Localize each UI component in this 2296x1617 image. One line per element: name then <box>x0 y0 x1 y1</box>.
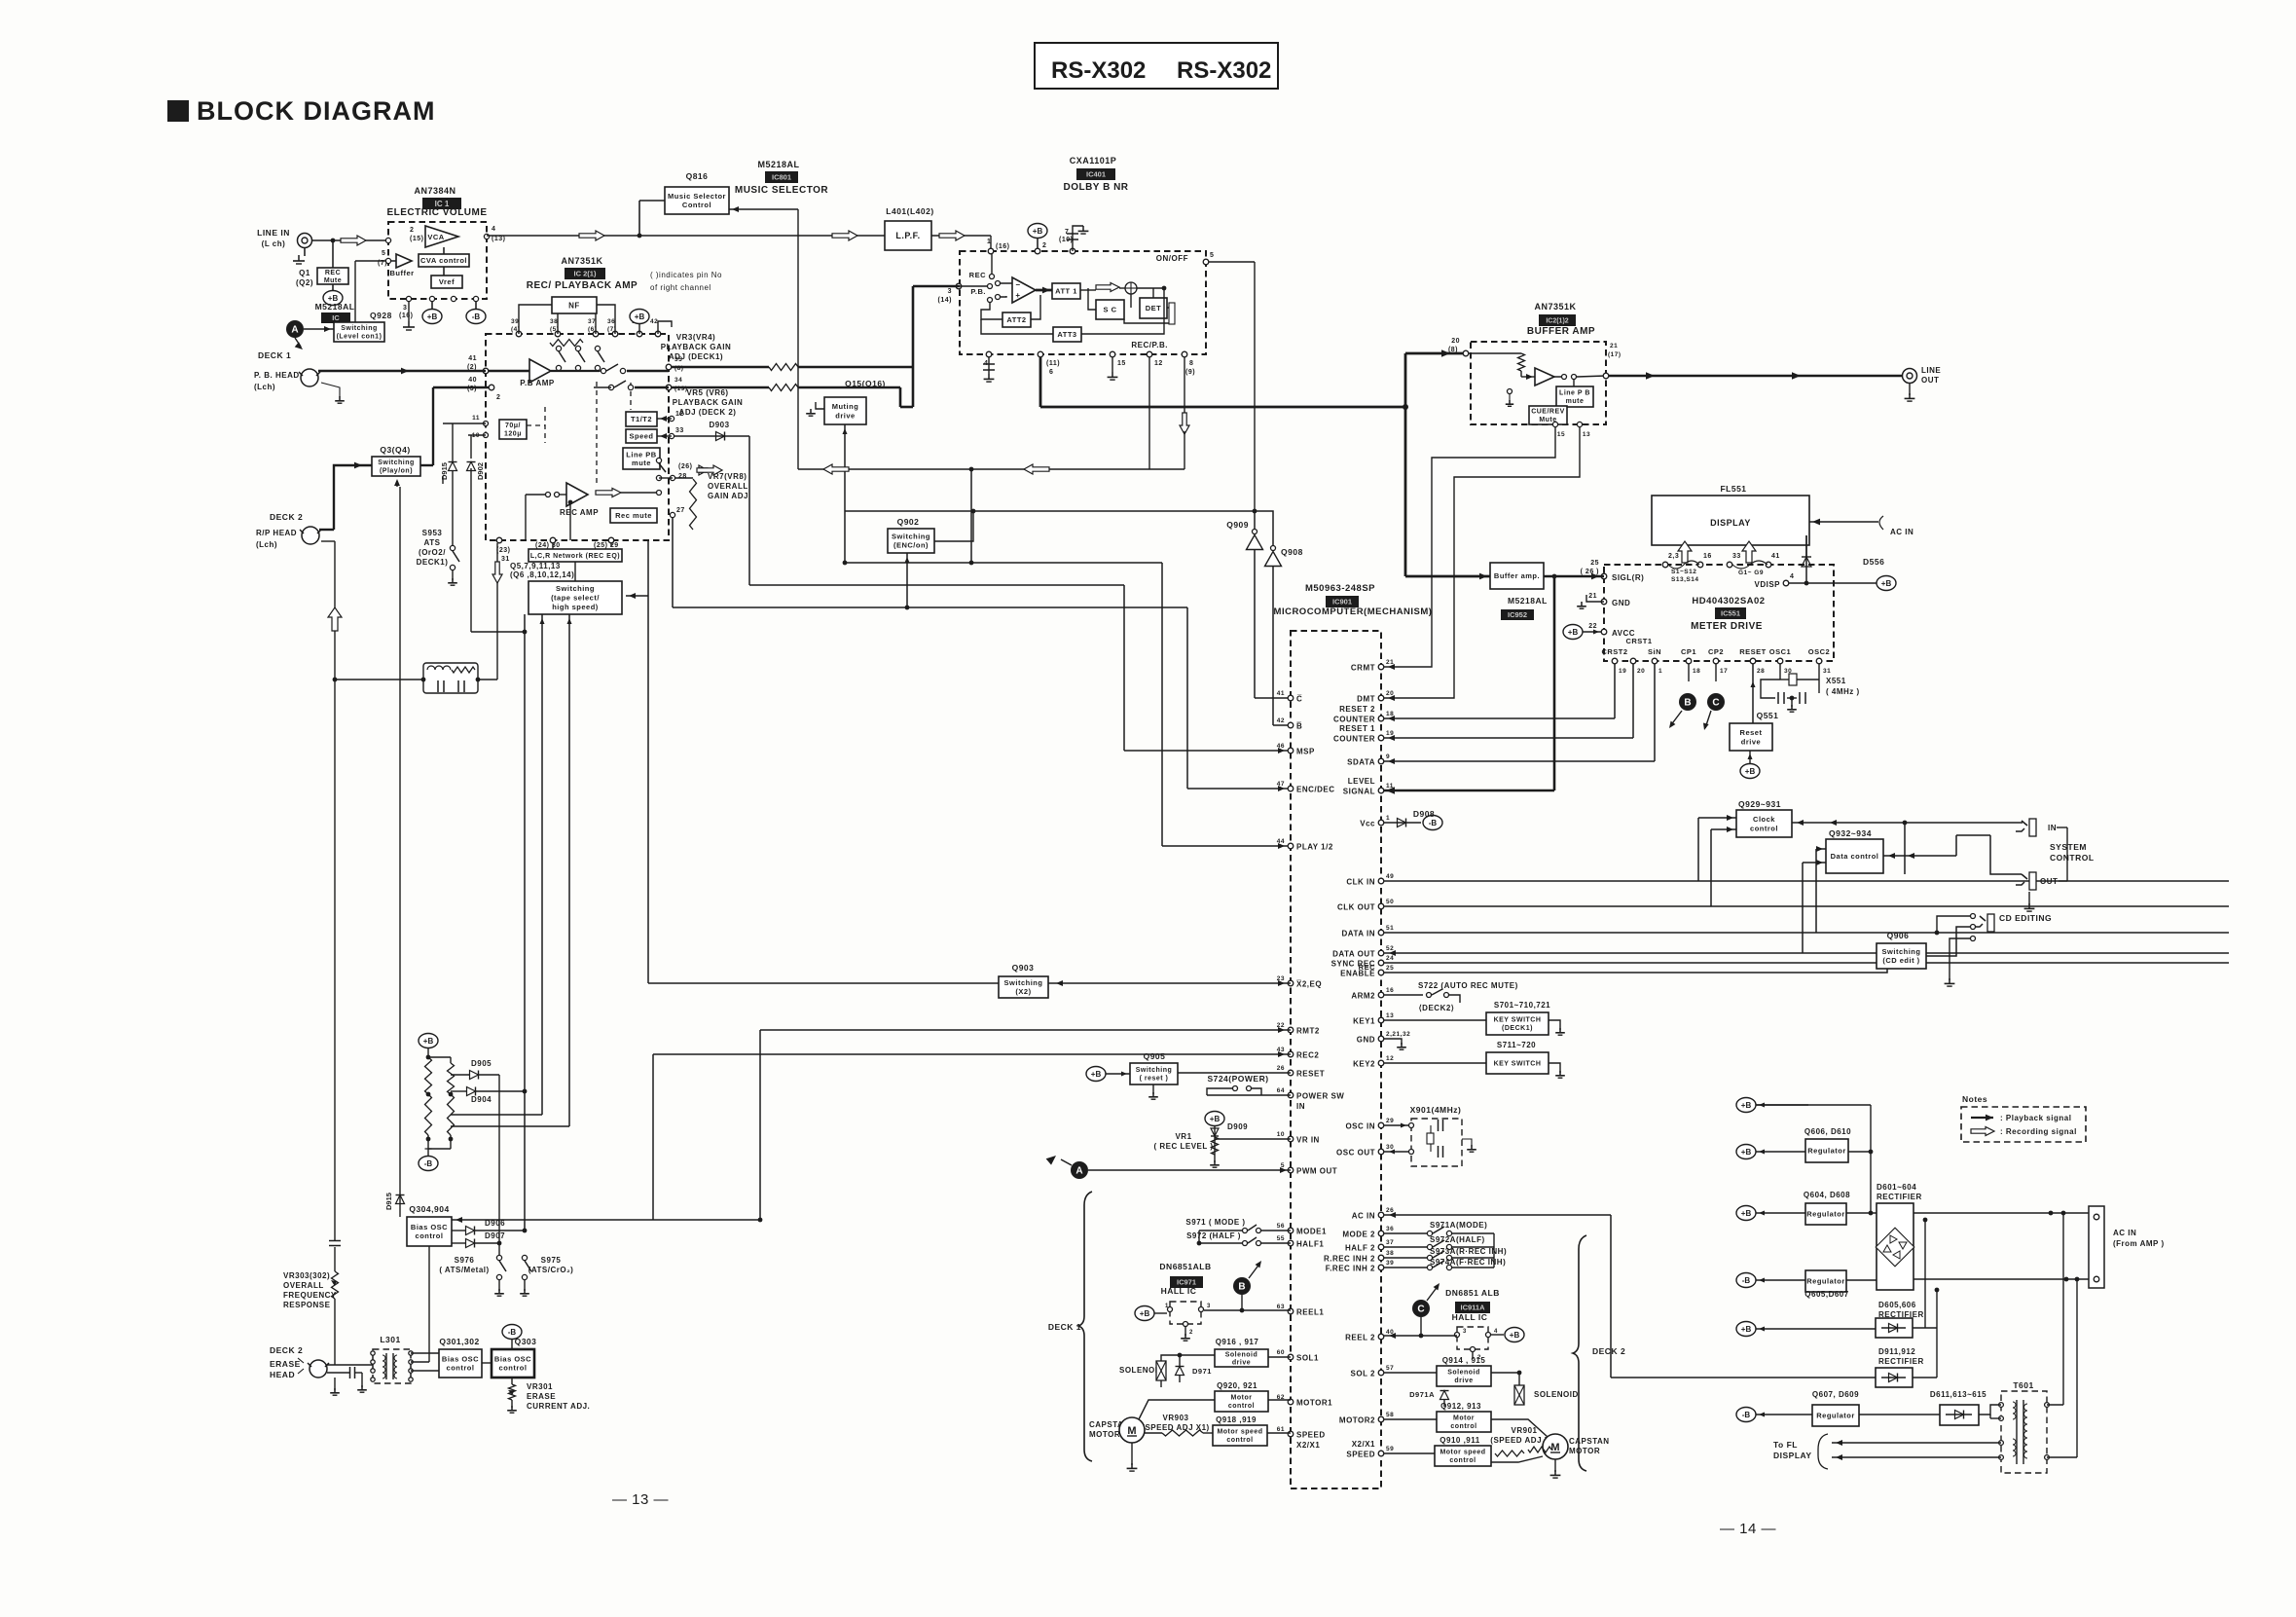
svg-text:1: 1 <box>1386 815 1390 822</box>
svg-text:(Q6 ,8,10,12,14): (Q6 ,8,10,12,14) <box>510 570 574 579</box>
svg-text:(Level con1): (Level con1) <box>337 334 383 341</box>
svg-text:DN6851ALB: DN6851ALB <box>1159 1262 1211 1271</box>
svg-text:Mute: Mute <box>324 277 342 284</box>
svg-text:D915: D915 <box>384 1193 393 1210</box>
svg-text:36: 36 <box>1386 1226 1394 1232</box>
svg-text:M5218AL: M5218AL <box>1508 596 1548 606</box>
svg-text:2: 2 <box>1189 1330 1193 1336</box>
svg-text:S972A(HALF): S972A(HALF) <box>1430 1235 1485 1244</box>
svg-text:drive: drive <box>835 411 855 420</box>
svg-text:ERASE: ERASE <box>527 1392 556 1401</box>
svg-text:Switching: Switching <box>556 584 595 593</box>
svg-text:MOTOR: MOTOR <box>1089 1430 1120 1439</box>
svg-text:ATT2: ATT2 <box>1006 315 1026 324</box>
svg-text:20: 20 <box>1451 338 1460 345</box>
svg-text:( 26 ): ( 26 ) <box>1581 569 1599 575</box>
svg-text:15: 15 <box>1117 360 1126 367</box>
svg-text:47: 47 <box>1277 781 1285 788</box>
svg-text:— 13 —: — 13 — <box>612 1491 669 1508</box>
svg-text:2,3: 2,3 <box>1668 553 1679 560</box>
svg-text:DECK 2: DECK 2 <box>1592 1346 1625 1356</box>
svg-text:M5218AL: M5218AL <box>757 160 799 169</box>
svg-text:4: 4 <box>1790 573 1794 580</box>
svg-text:control: control <box>1750 824 1778 832</box>
svg-text:D903: D903 <box>709 421 729 429</box>
svg-text:(Play/on): (Play/on) <box>380 468 413 475</box>
svg-text:Q908: Q908 <box>1281 547 1303 557</box>
svg-text:L,C,R Network (REC EQ): L,C,R Network (REC EQ) <box>530 553 620 560</box>
svg-text:DECK 2: DECK 2 <box>270 1345 303 1355</box>
svg-text:Vref: Vref <box>439 277 455 286</box>
svg-text:59: 59 <box>1386 1446 1394 1452</box>
svg-text:METER DRIVE: METER DRIVE <box>1691 621 1763 632</box>
svg-text:57: 57 <box>1386 1365 1394 1372</box>
svg-text:S971 ( MODE ): S971 ( MODE ) <box>1185 1218 1245 1227</box>
svg-text:SOLENOID: SOLENOID <box>1534 1390 1579 1399</box>
svg-text:: Playback signal: : Playback signal <box>2000 1114 2071 1122</box>
svg-text:IC801: IC801 <box>772 173 791 182</box>
svg-text:31: 31 <box>1823 668 1831 675</box>
svg-text:ARM2: ARM2 <box>1351 992 1375 1001</box>
svg-text:VR1: VR1 <box>1175 1132 1191 1141</box>
svg-text:39: 39 <box>511 318 519 325</box>
svg-text:38: 38 <box>1386 1250 1394 1257</box>
svg-text:40: 40 <box>468 377 477 384</box>
svg-text:KEY2: KEY2 <box>1353 1060 1375 1069</box>
svg-text:21: 21 <box>1588 593 1597 600</box>
svg-text:REC: REC <box>325 270 341 276</box>
svg-text:VR903: VR903 <box>1163 1414 1189 1422</box>
svg-text:+B: +B <box>1033 227 1043 236</box>
svg-text:55: 55 <box>1277 1235 1285 1242</box>
svg-text:MUSIC SELECTOR: MUSIC SELECTOR <box>735 185 829 196</box>
svg-text:S701~710,721: S701~710,721 <box>1494 1001 1550 1010</box>
svg-text:IN: IN <box>2048 824 2057 832</box>
svg-text:control: control <box>416 1231 444 1240</box>
svg-text:L.P.F.: L.P.F. <box>895 231 920 240</box>
svg-text:T601: T601 <box>2013 1380 2033 1390</box>
svg-text:control: control <box>1450 1423 1476 1430</box>
svg-text:24: 24 <box>1386 955 1394 962</box>
svg-text:51: 51 <box>1386 925 1394 932</box>
svg-text:(9): (9) <box>1185 369 1195 376</box>
svg-text:42: 42 <box>650 318 658 325</box>
svg-text:CLK OUT: CLK OUT <box>1337 903 1375 912</box>
svg-text:56: 56 <box>1277 1223 1285 1230</box>
svg-text:+B: +B <box>1741 1325 1752 1334</box>
svg-text:35: 35 <box>674 356 682 363</box>
svg-text:control: control <box>1226 1437 1253 1444</box>
svg-text:Q606, D610: Q606, D610 <box>1804 1127 1851 1136</box>
svg-text:Bias OSC: Bias OSC <box>411 1223 448 1231</box>
svg-text:3: 3 <box>948 288 952 295</box>
svg-text:DECK 1: DECK 1 <box>258 350 291 360</box>
svg-text:HALL IC: HALL IC <box>1452 1312 1488 1322</box>
svg-text:41: 41 <box>1771 553 1780 560</box>
svg-text:T1/T2: T1/T2 <box>631 415 652 423</box>
svg-text:HALL IC: HALL IC <box>1161 1286 1197 1296</box>
svg-text:( reset ): ( reset ) <box>1140 1076 1169 1083</box>
svg-text:Q912, 913: Q912, 913 <box>1440 1402 1481 1411</box>
svg-text:2: 2 <box>496 394 500 401</box>
svg-text:D556: D556 <box>1863 557 1884 567</box>
svg-text:control: control <box>1449 1457 1476 1464</box>
svg-text:drive: drive <box>1232 1359 1251 1366</box>
svg-text:27: 27 <box>676 507 685 514</box>
svg-text:39: 39 <box>1386 1260 1394 1267</box>
svg-text:AC IN: AC IN <box>2113 1229 2136 1237</box>
svg-text:Bias OSC: Bias OSC <box>494 1355 531 1364</box>
svg-text:10: 10 <box>1277 1131 1285 1138</box>
svg-text:B̅: B̅ <box>1296 722 1303 731</box>
svg-text:3: 3 <box>403 305 407 312</box>
svg-text:PLAYBACK GAIN: PLAYBACK GAIN <box>661 343 731 351</box>
svg-text:120μ: 120μ <box>504 431 522 438</box>
svg-text:mute: mute <box>1566 398 1585 405</box>
svg-text:CONTROL: CONTROL <box>2050 853 2095 863</box>
svg-text:IC: IC <box>332 313 340 322</box>
svg-text:( REC LEVEL ): ( REC LEVEL ) <box>1153 1142 1213 1151</box>
svg-text:CXA1101P: CXA1101P <box>1070 156 1117 165</box>
svg-text:CP2: CP2 <box>1708 647 1724 656</box>
svg-text:11: 11 <box>472 415 480 422</box>
svg-text:RESPONSE: RESPONSE <box>283 1301 331 1309</box>
svg-text:Q816: Q816 <box>686 171 709 181</box>
svg-text:16: 16 <box>1386 987 1394 994</box>
svg-text:MSP: MSP <box>1296 748 1315 756</box>
svg-text:RMT2: RMT2 <box>1296 1027 1320 1036</box>
svg-text:D905: D905 <box>471 1059 492 1068</box>
svg-text:-B: -B <box>472 312 481 321</box>
svg-text:2: 2 <box>410 227 414 234</box>
svg-text:(Lch): (Lch) <box>256 540 277 549</box>
svg-text:(ATS/CrO₂): (ATS/CrO₂) <box>528 1266 574 1274</box>
svg-text:OVERALL: OVERALL <box>283 1281 324 1290</box>
svg-text:drive: drive <box>1454 1378 1473 1384</box>
svg-text:-B: -B <box>1429 819 1438 827</box>
svg-text:X̅2,EQ: X̅2,EQ <box>1296 980 1322 989</box>
svg-text:RECTIFIER: RECTIFIER <box>1877 1193 1922 1201</box>
svg-text:CRST1: CRST1 <box>1625 637 1652 645</box>
svg-text:+B: +B <box>1210 1115 1221 1123</box>
svg-text:DECK 2: DECK 2 <box>270 512 303 522</box>
svg-text:-B: -B <box>1742 1276 1751 1285</box>
svg-text:Q15(Q16): Q15(Q16) <box>845 379 886 388</box>
svg-text:AN7351K: AN7351K <box>561 256 602 266</box>
svg-text:X901(4MHz): X901(4MHz) <box>1410 1105 1462 1115</box>
svg-text:CD EDITING: CD EDITING <box>1999 913 2052 923</box>
svg-text:20: 20 <box>1637 668 1645 675</box>
svg-text:(11): (11) <box>1046 360 1060 367</box>
svg-text:HALF1: HALF1 <box>1296 1240 1324 1249</box>
svg-text:+B: +B <box>423 1037 434 1046</box>
svg-text:VR IN: VR IN <box>1296 1136 1320 1145</box>
svg-text:G1~ G9: G1~ G9 <box>1738 570 1764 576</box>
svg-text:8: 8 <box>1189 360 1193 367</box>
svg-text:16: 16 <box>1703 553 1712 560</box>
svg-text:AN7351K: AN7351K <box>1534 302 1576 312</box>
svg-text:36: 36 <box>607 318 615 325</box>
svg-text:REEL1: REEL1 <box>1296 1308 1324 1317</box>
svg-text:(7): (7) <box>378 260 387 267</box>
svg-text:IC901: IC901 <box>1332 598 1352 606</box>
svg-text:S711~720: S711~720 <box>1497 1041 1536 1049</box>
svg-text:19: 19 <box>1619 668 1626 675</box>
svg-text:VR5 (VR6): VR5 (VR6) <box>686 388 728 397</box>
svg-text:DECK1): DECK1) <box>417 558 449 567</box>
svg-text:AC IN: AC IN <box>1352 1212 1375 1221</box>
svg-text:— 14 —: — 14 — <box>1720 1521 1776 1537</box>
svg-text:+B: +B <box>1140 1309 1150 1318</box>
svg-text:OUT: OUT <box>1921 376 1939 385</box>
svg-text:DN6851 ALB: DN6851 ALB <box>1445 1288 1500 1298</box>
svg-text:A: A <box>291 325 298 336</box>
svg-text:Q1: Q1 <box>299 269 310 277</box>
svg-text:Switching: Switching <box>341 325 378 332</box>
svg-text:DOLBY B NR: DOLBY B NR <box>1063 182 1128 193</box>
svg-text:( ATS/Metal): ( ATS/Metal) <box>439 1266 489 1274</box>
svg-text:ATS: ATS <box>424 538 441 547</box>
svg-text:19: 19 <box>1386 730 1394 737</box>
svg-text:D904: D904 <box>471 1095 492 1104</box>
svg-text:Q914 , 915: Q914 , 915 <box>1442 1356 1486 1365</box>
svg-text:F.REC INH 2: F.REC INH 2 <box>1326 1265 1375 1273</box>
svg-text:OSC2: OSC2 <box>1808 647 1830 656</box>
svg-text:S1~S12: S1~S12 <box>1671 569 1696 575</box>
svg-text:D971A: D971A <box>1409 1390 1435 1399</box>
svg-text:P.B AMP: P.B AMP <box>520 379 555 387</box>
svg-text:50: 50 <box>1386 899 1394 905</box>
svg-text:mute: mute <box>632 459 651 467</box>
svg-text:4: 4 <box>1494 1329 1498 1335</box>
svg-text:L301: L301 <box>380 1335 400 1344</box>
svg-text:63: 63 <box>1277 1304 1285 1310</box>
svg-text:21: 21 <box>1610 343 1618 349</box>
svg-text:-B: -B <box>1742 1411 1751 1419</box>
svg-text:RESET: RESET <box>1739 647 1767 656</box>
svg-text:CLK IN: CLK IN <box>1346 878 1375 887</box>
svg-text:VCA: VCA <box>427 233 444 241</box>
svg-text:Q551: Q551 <box>1757 711 1779 720</box>
svg-text:3: 3 <box>1207 1304 1211 1309</box>
svg-text:(DECK1): (DECK1) <box>1502 1025 1533 1032</box>
svg-text:26: 26 <box>1386 1207 1394 1214</box>
svg-text:Q902: Q902 <box>897 517 920 527</box>
svg-text:(tape select/: (tape select/ <box>551 594 600 603</box>
svg-text:Speed: Speed <box>629 432 653 441</box>
svg-text:37: 37 <box>588 318 596 325</box>
svg-text:D902: D902 <box>476 462 485 480</box>
svg-text:−: − <box>1015 280 1020 289</box>
svg-text:(15): (15) <box>410 236 423 242</box>
svg-text:Q905: Q905 <box>1144 1051 1166 1061</box>
svg-text:BLOCK DIAGRAM: BLOCK DIAGRAM <box>197 96 435 126</box>
svg-text:64: 64 <box>1277 1087 1285 1094</box>
svg-text:(24) 30: (24) 30 <box>535 542 561 549</box>
svg-text:SYSTEM: SYSTEM <box>2050 842 2087 852</box>
svg-text:15: 15 <box>1557 431 1565 438</box>
svg-text:Motor: Motor <box>1231 1395 1253 1402</box>
svg-text:33: 33 <box>675 427 684 434</box>
svg-text:28: 28 <box>1757 668 1765 675</box>
svg-text:MICROCOMPUTER(MECHANISM): MICROCOMPUTER(MECHANISM) <box>1274 606 1433 617</box>
svg-text:4: 4 <box>492 226 495 233</box>
svg-text:1: 1 <box>1658 668 1662 675</box>
svg-text:Switching: Switching <box>1882 947 1921 956</box>
svg-text:PWM OUT: PWM OUT <box>1296 1167 1337 1176</box>
svg-text:Regulator: Regulator <box>1806 1277 1845 1286</box>
svg-text:Q3(Q4): Q3(Q4) <box>380 445 410 455</box>
svg-text:FL551: FL551 <box>1720 484 1746 494</box>
svg-text:52: 52 <box>1386 945 1394 952</box>
svg-text:B: B <box>1684 698 1691 709</box>
svg-text:VR301: VR301 <box>527 1382 553 1391</box>
svg-text:Regulator: Regulator <box>1807 1147 1846 1156</box>
svg-text:CVA control: CVA control <box>420 256 467 265</box>
svg-text:SDATA: SDATA <box>1347 758 1375 767</box>
svg-text:PLAY 1/2: PLAY 1/2 <box>1296 843 1333 852</box>
svg-text:44: 44 <box>1277 838 1285 845</box>
svg-text:MOTOR1: MOTOR1 <box>1296 1399 1332 1408</box>
svg-text:(Q2): (Q2) <box>296 278 313 287</box>
svg-text:9: 9 <box>1386 753 1390 760</box>
svg-text:Switching: Switching <box>1136 1067 1173 1074</box>
svg-text:ATT 1: ATT 1 <box>1055 287 1077 296</box>
svg-text:6: 6 <box>1049 369 1053 376</box>
svg-text:KEY1: KEY1 <box>1353 1017 1375 1026</box>
svg-text:Q607, D609: Q607, D609 <box>1812 1390 1859 1399</box>
svg-text:Q932~934: Q932~934 <box>1829 828 1872 838</box>
svg-text:Q903: Q903 <box>1012 963 1035 973</box>
svg-text:REC/P.B.: REC/P.B. <box>1131 341 1168 349</box>
svg-text:To FL: To FL <box>1773 1440 1798 1450</box>
svg-text:(3): (3) <box>467 386 477 392</box>
svg-text:46: 46 <box>1277 743 1285 750</box>
svg-text:21: 21 <box>1386 659 1394 666</box>
svg-text:drive: drive <box>1741 737 1761 746</box>
svg-text:Notes: Notes <box>1962 1094 1987 1104</box>
svg-text:RESET: RESET <box>1296 1070 1325 1079</box>
svg-text:(L ch): (L ch) <box>262 239 286 248</box>
svg-text:+B: +B <box>1745 767 1756 776</box>
svg-text:Control: Control <box>682 201 711 209</box>
svg-text:MODE1: MODE1 <box>1296 1228 1327 1236</box>
svg-text:COUNTER: COUNTER <box>1333 735 1375 744</box>
svg-text:KEY SWITCH: KEY SWITCH <box>1494 1060 1542 1067</box>
svg-text:+B: +B <box>1568 628 1579 637</box>
svg-text:IC551: IC551 <box>1721 609 1740 618</box>
svg-text:CP1: CP1 <box>1681 647 1696 656</box>
svg-text:D601~604: D601~604 <box>1877 1183 1916 1192</box>
svg-text:HD404302SA02: HD404302SA02 <box>1692 596 1765 606</box>
svg-text:OVERALL: OVERALL <box>708 482 748 491</box>
svg-text:-B: -B <box>508 1328 517 1337</box>
svg-text:FREQUENCY: FREQUENCY <box>283 1291 337 1300</box>
svg-text:Q920, 921: Q920, 921 <box>1217 1381 1257 1390</box>
svg-text:Regulator: Regulator <box>1806 1210 1845 1219</box>
svg-text:IC401: IC401 <box>1086 170 1106 179</box>
svg-text:RESET 1: RESET 1 <box>1339 724 1375 733</box>
svg-text:(13): (13) <box>492 236 505 242</box>
svg-text:VR3(VR4): VR3(VR4) <box>676 333 715 342</box>
svg-text:OUT: OUT <box>2040 877 2058 886</box>
svg-text:( )indicates pin No: ( )indicates pin No <box>650 271 722 279</box>
svg-text:HALF 2: HALF 2 <box>1345 1244 1375 1253</box>
svg-text:Music Selector: Music Selector <box>668 192 726 201</box>
svg-text:IC952: IC952 <box>1508 610 1527 619</box>
svg-text:SPEED: SPEED <box>1296 1431 1326 1440</box>
svg-text:S722 (AUTO REC MUTE): S722 (AUTO REC MUTE) <box>1418 981 1518 990</box>
svg-text:Q604, D608: Q604, D608 <box>1804 1191 1850 1199</box>
svg-text:Switching: Switching <box>378 459 415 466</box>
svg-text:Q929~931: Q929~931 <box>1738 799 1781 809</box>
svg-text:D906: D906 <box>485 1219 505 1228</box>
svg-text:31: 31 <box>501 556 510 563</box>
svg-text:S953: S953 <box>422 529 443 537</box>
svg-text:DECK 1: DECK 1 <box>1048 1322 1081 1332</box>
svg-text:+B: +B <box>1741 1101 1752 1110</box>
svg-text:+B: +B <box>1741 1148 1752 1157</box>
svg-text:(CD edit ): (CD edit ) <box>1882 956 1919 965</box>
svg-text:13: 13 <box>1583 431 1590 438</box>
svg-text:25: 25 <box>1386 965 1394 972</box>
svg-text:⟨DECK2⟩: ⟨DECK2⟩ <box>1419 1004 1455 1012</box>
svg-text:(From AMP ): (From AMP ) <box>2113 1239 2165 1248</box>
svg-text:REEL 2: REEL 2 <box>1345 1334 1375 1342</box>
svg-text:17: 17 <box>1720 668 1728 675</box>
svg-text:CUE/REV: CUE/REV <box>1531 409 1565 416</box>
svg-text:OSC IN: OSC IN <box>1345 1122 1375 1131</box>
svg-text:DET: DET <box>1146 304 1162 312</box>
svg-text:ADJ (DECK 2): ADJ (DECK 2) <box>679 408 737 417</box>
svg-text:12: 12 <box>1386 1055 1394 1062</box>
svg-text:+B: +B <box>1741 1209 1752 1218</box>
svg-text:Q304,904: Q304,904 <box>409 1204 449 1214</box>
svg-text:Buffer amp.: Buffer amp. <box>1494 571 1540 580</box>
svg-text:R/P HEAD: R/P HEAD <box>256 529 297 537</box>
svg-text:control: control <box>499 1364 528 1373</box>
svg-text:S975: S975 <box>541 1256 562 1265</box>
svg-text:Q910 ,911: Q910 ,911 <box>1440 1436 1479 1445</box>
svg-text:3: 3 <box>1463 1329 1467 1335</box>
svg-text:S973A(R·REC INH): S973A(R·REC INH) <box>1430 1247 1507 1256</box>
svg-text:D911,912: D911,912 <box>1878 1347 1915 1356</box>
svg-text:COUNTER: COUNTER <box>1333 716 1375 724</box>
svg-text:(23): (23) <box>496 547 510 554</box>
svg-text:M: M <box>1550 1442 1559 1453</box>
svg-text:DATA OUT: DATA OUT <box>1332 950 1375 959</box>
svg-text:POWER SW: POWER SW <box>1296 1092 1344 1101</box>
svg-text:DMT: DMT <box>1357 695 1375 704</box>
svg-text:Buffer: Buffer <box>389 269 414 277</box>
svg-text:MODE 2: MODE 2 <box>1342 1231 1375 1239</box>
svg-text:LEVEL: LEVEL <box>1348 777 1375 786</box>
svg-text:Switching: Switching <box>1004 978 1043 987</box>
svg-text:18: 18 <box>1693 668 1700 675</box>
svg-text:ENC/DEC: ENC/DEC <box>1296 786 1335 794</box>
svg-text:CAPSTAN: CAPSTAN <box>1569 1437 1610 1446</box>
svg-text:60: 60 <box>1277 1349 1285 1356</box>
svg-text:Switching: Switching <box>892 533 930 541</box>
svg-text:25: 25 <box>1590 560 1599 567</box>
svg-text:LINE IN: LINE IN <box>257 228 290 238</box>
svg-text:ERASE: ERASE <box>270 1359 301 1369</box>
svg-text:L401(L402): L401(L402) <box>886 206 933 216</box>
svg-text:LINE: LINE <box>1921 366 1941 375</box>
svg-text:M50963-248SP: M50963-248SP <box>1305 583 1375 594</box>
svg-text:S976: S976 <box>455 1256 475 1265</box>
svg-text:IC911A: IC911A <box>1460 1304 1485 1312</box>
